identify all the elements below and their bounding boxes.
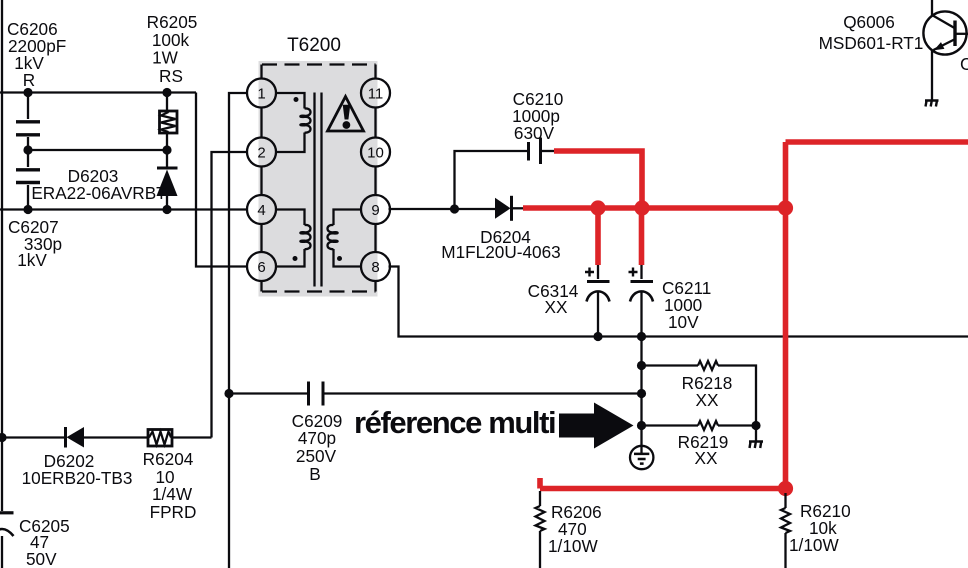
capacitor C6211: [629, 265, 712, 366]
svg-text:M1FL20U-4063: M1FL20U-4063: [441, 242, 560, 262]
red wire: main bus from D6204: [523, 205, 786, 211]
transformer core: [315, 93, 322, 287]
svg-text:1/10W: 1/10W: [789, 535, 839, 555]
pin 2: [247, 138, 276, 167]
capacitor C6207: [8, 150, 62, 270]
svg-text:ERA22-06AVRBT: ERA22-06AVRBT: [31, 183, 167, 203]
red wire: top rail y=142: [786, 139, 968, 145]
red wire: vertical x=785: [783, 142, 789, 489]
svg-text:RS: RS: [159, 66, 183, 86]
chassis ground at R6219: [749, 426, 763, 449]
pin 11: [361, 79, 390, 108]
wire: pin2 branch x=212: [212, 152, 248, 438]
svg-text:2: 2: [257, 145, 265, 162]
svg-text:MSD601-RT1: MSD601-RT1: [819, 33, 924, 53]
svg-text:XX: XX: [695, 448, 718, 468]
wire: rail y=209 to pin4: [0, 208, 248, 210]
transformer pin bus left: [260, 65, 262, 292]
svg-text:FPRD: FPRD: [150, 502, 197, 522]
wire: y=150 link: [28, 149, 167, 151]
svg-text:4: 4: [257, 202, 265, 219]
junction dots bottom rail: [593, 332, 602, 341]
big arrow: [559, 403, 634, 449]
svg-text:XX: XX: [696, 390, 719, 410]
svg-text:XX: XX: [545, 297, 568, 317]
svg-text:470p: 470p: [298, 428, 336, 448]
wire: left bus x=2 bottom: [1, 536, 3, 568]
svg-text:9: 9: [371, 202, 379, 219]
pin 10: [361, 138, 390, 167]
svg-text:10V: 10V: [668, 312, 699, 332]
svg-text:6: 6: [257, 259, 265, 276]
red junction dots: [590, 200, 605, 215]
wire: x=196 vertical to pin6: [196, 93, 248, 267]
resistor R6204: [143, 430, 212, 523]
junction dots left block: [23, 88, 32, 97]
pin 1: [247, 79, 276, 108]
transformer pin bus right: [374, 65, 376, 292]
resistor R6218: [642, 361, 757, 426]
capacitor C6205: [0, 513, 70, 568]
svg-text:B: B: [309, 464, 320, 484]
svg-text:Q6006: Q6006: [843, 12, 895, 32]
capacitor C6314: [528, 265, 610, 337]
wire: x=641 between R6218 and R6219: [640, 366, 642, 426]
winding 1-2: [276, 93, 311, 152]
wire: top rail y=92: [0, 91, 196, 93]
svg-text:T6200: T6200: [287, 35, 341, 56]
junction dot C6210 branch: [450, 204, 459, 213]
pin 4: [247, 195, 276, 224]
svg-text:1/4W: 1/4W: [152, 484, 193, 504]
red wire: bottom rail y=488: [540, 478, 786, 489]
winding 4-6: [276, 210, 311, 267]
capacitor C6206: [7, 19, 66, 150]
diode D6204: [441, 196, 560, 262]
svg-text:630V: 630V: [514, 123, 555, 143]
svg-text:R6205: R6205: [147, 12, 198, 32]
pin 9: [361, 195, 390, 224]
svg-text:R: R: [23, 70, 35, 90]
transformer T6200 body (gray box): [259, 61, 378, 297]
pin 6: [247, 252, 276, 281]
warning triangle: [328, 97, 364, 132]
red wire: C6210 to bus: [554, 151, 642, 208]
wire: left bus x=2 top: [1, 0, 3, 511]
winding 9-8: [328, 210, 362, 267]
svg-text:8: 8: [371, 259, 379, 276]
resistor R6206: [536, 491, 602, 568]
junction dots R6218/R6219 column: [637, 361, 646, 370]
svg-text:C: C: [960, 54, 968, 74]
diode D6202: [22, 427, 148, 488]
wire: pin9 to D6204: [389, 208, 496, 210]
pin 8: [361, 252, 390, 281]
wire: pin1 bus x=229: [229, 93, 248, 568]
earth ground: [630, 426, 653, 470]
red wire: C6211 lead: [639, 208, 645, 265]
svg-text:11: 11: [368, 86, 384, 103]
resistor R6210: [781, 493, 851, 568]
capacitor C6210: [512, 89, 563, 164]
svg-text:10: 10: [367, 145, 384, 162]
junction dot C6209 left: [224, 389, 233, 398]
wire: C6209 row: [229, 392, 308, 394]
svg-text:1: 1: [257, 86, 265, 103]
svg-text:1W: 1W: [152, 48, 179, 68]
junction dot left bus / D6202: [0, 433, 7, 442]
resistor R6219: [642, 421, 757, 468]
svg-text:réference multi: réference multi: [354, 405, 555, 440]
svg-text:R6204: R6204: [143, 449, 194, 469]
capacitor C6209: [292, 382, 641, 485]
diode D6203: [31, 150, 177, 210]
svg-text:50V: 50V: [26, 549, 57, 568]
red wire: C6314 lead: [595, 208, 601, 265]
svg-text:1/10W: 1/10W: [548, 536, 598, 556]
resistor R6205: [147, 12, 198, 150]
svg-text:250V: 250V: [296, 446, 337, 466]
chassis ground at Q6006 emitter: [925, 101, 939, 107]
svg-text:10ERB20-TB3: 10ERB20-TB3: [22, 468, 133, 488]
transistor Q6006: [819, 0, 968, 100]
wire: C6210 branch: [455, 151, 529, 209]
wire: C6210 right stub: [541, 150, 555, 152]
wire: pin8 to bottom rail: [389, 267, 968, 337]
svg-text:1kV: 1kV: [17, 250, 47, 270]
wire: D6202/R6204 row y=437: [2, 436, 65, 438]
